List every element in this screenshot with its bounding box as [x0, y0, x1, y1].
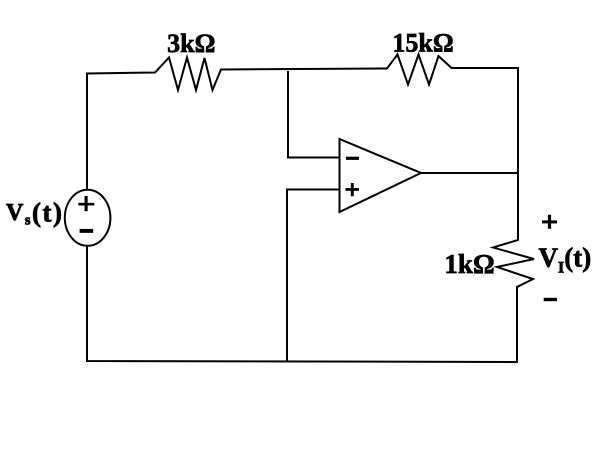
svg-text:VI(t): VI(t) [539, 243, 592, 277]
svg-text:Vs(t): Vs(t) [6, 198, 63, 229]
svg-text:3kΩ: 3kΩ [167, 29, 215, 58]
svg-text:15kΩ: 15kΩ [392, 28, 453, 57]
svg-text:1kΩ: 1kΩ [444, 249, 494, 279]
